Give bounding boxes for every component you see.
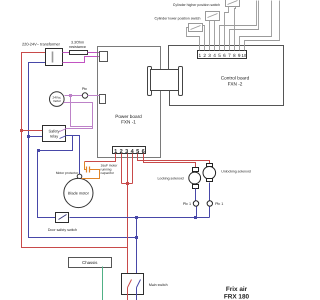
svg-text:Plc 1: Plc 1 xyxy=(215,202,223,206)
svg-text:4: 4 xyxy=(213,53,216,58)
svg-text:Locking solenoid: Locking solenoid xyxy=(157,177,183,181)
svg-text:Plc 1: Plc 1 xyxy=(183,202,191,206)
svg-text:2: 2 xyxy=(203,53,206,58)
wire mains blue left xyxy=(29,63,137,238)
wire J2 pin9 to top right xyxy=(240,1,272,51)
svg-text:Cylinder lower position switch: Cylinder lower position switch xyxy=(155,17,201,21)
svg-text:capacitor: capacitor xyxy=(101,171,115,175)
svg-text:8: 8 xyxy=(233,53,236,58)
unlocking solenoid L2 bottom tab xyxy=(207,179,213,182)
wire blue bus door switch to solenoids xyxy=(70,217,210,219)
svg-text:FXN -1: FXN -1 xyxy=(121,120,136,125)
svg-text:220-24V~ transformer: 220-24V~ transformer xyxy=(22,41,61,46)
wire magenta loop A xyxy=(71,96,93,127)
junction blue bus center xyxy=(135,216,138,219)
wire S2 right pin to J2 pin4 xyxy=(214,21,216,51)
svg-text:10: 10 xyxy=(242,53,247,58)
svg-text:9: 9 xyxy=(238,53,241,58)
svg-text:Door safety switch: Door safety switch xyxy=(48,228,77,232)
control board U2 FXN-2 xyxy=(169,46,284,106)
svg-text:Blade motor: Blade motor xyxy=(68,191,90,196)
wire red J1 pin2 down xyxy=(121,154,123,184)
chassis box xyxy=(69,258,112,268)
motor M1 24Vcc xyxy=(50,92,65,107)
wire blue locking solenoid to Plc1 xyxy=(195,189,197,201)
svg-text:Cylinder higher position switc: Cylinder higher position switch xyxy=(173,3,220,7)
svg-text:resistance: resistance xyxy=(69,45,86,49)
switch S3 top (cut off) xyxy=(226,0,240,7)
junction red relay xyxy=(20,129,23,132)
wire blue relay out to motor protector xyxy=(66,136,80,175)
wire S1 right pin to J2 pin2 xyxy=(203,26,205,51)
wire blue relay loop to door switch xyxy=(38,136,73,218)
junction red join xyxy=(126,182,129,185)
svg-text:Power board: Power board xyxy=(115,114,142,119)
svg-text:motor: motor xyxy=(53,99,61,103)
wire J2 pin8 to S3 right pin xyxy=(235,7,236,51)
svg-text:Motor protector: Motor protector xyxy=(56,171,79,175)
wire red join pins 2-4 xyxy=(122,183,133,185)
locking solenoid L1 bottom tab xyxy=(193,185,199,189)
wire magenta secondary bottom to tab1 xyxy=(63,57,100,63)
wire blue bus down to mains xyxy=(136,218,138,280)
capacitor C1 16uF circuit orange xyxy=(82,162,100,179)
wire red J1 pin6 to locking solenoid xyxy=(144,154,196,168)
power board connector J1 1-6 xyxy=(113,147,146,154)
transformer core xyxy=(52,52,54,63)
junction magenta Ptc wire xyxy=(69,94,72,97)
transformer T1 xyxy=(46,49,63,66)
svg-text:relay: relay xyxy=(50,134,58,139)
svg-text:Main switch: Main switch xyxy=(149,283,168,287)
svg-text:6: 6 xyxy=(223,53,226,58)
wire red main switch out xyxy=(127,288,129,300)
wire blue unlocking solenoid to Plc1 right xyxy=(209,183,211,201)
unlocking solenoid L2 top tab xyxy=(207,164,213,167)
wire magenta motor to Ptc xyxy=(65,95,83,97)
wire blue Plc1 right to bus xyxy=(209,207,211,218)
wire blue main switch out xyxy=(136,288,138,300)
main switch red blade xyxy=(128,280,132,288)
Plc 1 left circle xyxy=(193,201,198,206)
locking solenoid L1 xyxy=(189,172,201,184)
unlocking solenoid L2 xyxy=(203,167,216,180)
switch S1 cylinder lower position xyxy=(189,24,203,32)
wire red J1 pin1 to capacitor xyxy=(85,154,116,162)
wire red J1 pin4 down xyxy=(132,154,134,184)
junction blue mains xyxy=(135,236,138,239)
wire red branch to safety relay xyxy=(22,130,43,132)
relay contact blade top xyxy=(60,129,67,132)
wire magenta resistor to tab1 xyxy=(88,52,100,54)
power board tab2 xyxy=(100,95,106,104)
wire J2 pin6 to S3 left pin xyxy=(225,7,229,51)
blade motor M2 xyxy=(64,178,93,207)
main switch blue blade xyxy=(137,280,141,288)
resistor 3.3Ohm xyxy=(70,51,88,55)
wire J2 pin5 to top right xyxy=(220,1,257,51)
safety relay K1 xyxy=(43,126,66,142)
junction blue bus solenoid xyxy=(194,216,197,219)
control board connector J2 1-10 xyxy=(198,51,247,59)
wire S2 left pin to J2 pin3 xyxy=(209,21,211,51)
wire J2 pin7 to top right xyxy=(230,1,259,51)
power board U1 FXN-1 xyxy=(98,47,161,158)
junction blue relay xyxy=(27,135,30,138)
svg-text:Frix air: Frix air xyxy=(226,286,248,293)
thermistor Ptc xyxy=(82,93,87,98)
switch S2 cylinder higher position xyxy=(206,12,220,21)
Plc 1 right circle xyxy=(207,201,212,206)
svg-text:5: 5 xyxy=(218,53,221,58)
svg-text:1: 1 xyxy=(198,53,201,58)
power board tab1 xyxy=(100,52,108,62)
svg-text:Chassis: Chassis xyxy=(82,260,97,265)
svg-text:Control board: Control board xyxy=(221,76,250,81)
wire magenta Ptc to tab2 xyxy=(88,95,100,97)
wire magenta loop B motor to relay xyxy=(64,103,93,129)
cable connector P1 right bar xyxy=(179,67,183,96)
motor protector xyxy=(77,174,82,179)
wire mains red left xyxy=(22,53,128,248)
main switch S5 xyxy=(122,274,144,295)
wire green chassis ground xyxy=(102,267,104,300)
svg-text:FRX 180: FRX 180 xyxy=(224,293,250,300)
door safety switch S4 xyxy=(56,213,69,223)
cable connector P1 body xyxy=(151,70,179,91)
locking solenoid L1 top tab xyxy=(193,168,199,172)
wire S1 left pin to J2 pin1 xyxy=(187,28,200,51)
wire J2 pin10 to top right xyxy=(245,1,280,51)
wire red J1 pin3 to main switch xyxy=(127,154,129,280)
junction blue loop xyxy=(37,149,40,152)
svg-text:7: 7 xyxy=(228,53,231,58)
wire magenta secondary top xyxy=(63,52,70,54)
svg-text:Unlocking solenoid: Unlocking solenoid xyxy=(221,170,250,174)
capacitor C1 plates xyxy=(87,167,90,173)
svg-text:FXN -2: FXN -2 xyxy=(228,82,243,87)
svg-text:3: 3 xyxy=(208,53,211,58)
cable connector P1 left bar xyxy=(148,67,152,96)
svg-text:Ptc: Ptc xyxy=(82,87,87,91)
wire red J1 pin5 to unlocking solenoid xyxy=(138,154,210,164)
wire blue Plc1 left to bus xyxy=(196,207,198,218)
wire blue branch to safety relay xyxy=(29,136,43,138)
relay contact blade bottom xyxy=(60,136,67,139)
